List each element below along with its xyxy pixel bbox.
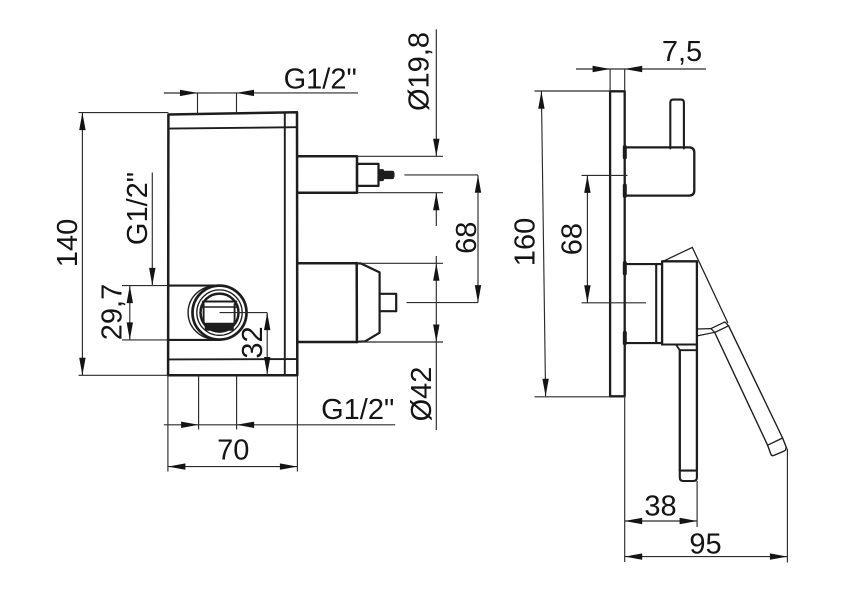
svg-text:68: 68 (557, 223, 589, 255)
7,5 extension left (609, 69, 611, 91)
body bottom band line (168, 358, 297, 360)
open lever cap upper line (711, 322, 729, 333)
arrow Ø42 top (up) (433, 263, 439, 281)
handle hub (662, 261, 697, 344)
32 dimension line (266, 313, 268, 375)
arrow Ø19,8 top (outside, down) (433, 139, 439, 157)
Ø19,8 top extension line (357, 155, 443, 157)
top G1/2 dimension line (164, 92, 358, 94)
cartridge slot dark bottom bar (206, 324, 234, 331)
38 dimension line (625, 520, 697, 522)
arrow 95 right (pointing right) (770, 553, 788, 559)
body top band line (168, 127, 297, 128)
svg-text:140: 140 (52, 219, 84, 267)
side 68 bottom extension line (582, 302, 647, 304)
arrow 70 right (pointing right) (280, 463, 298, 469)
arrow top G1/2 right (outside, pointing left) (237, 90, 255, 96)
38-95 left extension line (plate face) (624, 396, 626, 562)
open lever tip cap line (768, 438, 783, 445)
arrow bottom G1/2 left (outside, pointing right) (181, 422, 199, 428)
7,5 extension right (624, 69, 626, 91)
open lever bar (715, 326, 787, 448)
160 bottom extension line (535, 396, 611, 398)
top outlet port rectangle (297, 156, 357, 192)
plate junction tick top of sleeve (623, 263, 627, 274)
body inner right vertical line (284, 113, 286, 376)
hub bottom edge (662, 343, 697, 345)
wall plate side view (610, 91, 625, 396)
closed lever top line (680, 349, 697, 351)
mixer body front view outline (168, 112, 297, 375)
160 top extension line (535, 90, 611, 92)
boss centerline to 32 dim (220, 312, 268, 314)
open lever top face thin edge long (692, 247, 727, 322)
Ø42 extension bottom (360, 341, 443, 343)
arrow left G1/2 leader (down) (149, 268, 155, 286)
bottom port extension left (198, 375, 200, 429)
plate junction tick bottom of sleeve (623, 333, 627, 344)
open lever step lower line (697, 332, 715, 336)
side 68 top extension line (582, 174, 628, 176)
arrow bottom G1/2 right (outside, pointing left) (237, 422, 255, 428)
open lever beveled tip (768, 445, 787, 455)
svg-text:29,7: 29,7 (97, 284, 129, 340)
top port hex fitting (357, 164, 379, 186)
140 dimension line (81, 113, 83, 376)
160 dimension line (541, 91, 545, 396)
diverter knob body (625, 147, 695, 195)
svg-text:68: 68 (451, 222, 483, 254)
svg-text:160: 160 (510, 218, 542, 266)
arrow 29,7 top (up) (127, 286, 133, 304)
Ø42 dimension line (435, 256, 437, 430)
140 bottom extension line (79, 374, 169, 376)
step chamfer under hub (676, 345, 680, 351)
95 dimension line (625, 556, 788, 558)
bottom port chamfered cap (357, 263, 380, 342)
70 dimension line (168, 466, 298, 468)
bottom port centerline (407, 302, 479, 304)
bottom outlet port rectangle (297, 263, 357, 342)
Ø42 extension top (361, 262, 443, 264)
side port boss offset circle (crescent) (188, 286, 241, 339)
95 right extension line (786, 449, 788, 563)
70 left extension line (167, 375, 169, 471)
Ø19,8 bottom extension line (357, 192, 443, 194)
open lever top face thin edge left (664, 247, 692, 261)
top port extension line left (197, 93, 199, 114)
38 right extension line (696, 481, 698, 527)
bottom G1/2 dimension line (164, 424, 395, 426)
arrow 32 top (up) (264, 313, 270, 331)
side port boss outer circle (193, 286, 247, 340)
svg-text:G1/2": G1/2" (284, 64, 357, 96)
side port boss inner circle (201, 294, 239, 332)
top port centerline (404, 174, 478, 176)
arrow Ø42 bottom (down) (433, 325, 439, 343)
left G1/2 leader line (151, 173, 153, 286)
side port boss middle circle (197, 290, 242, 335)
svg-text:38: 38 (644, 491, 676, 523)
svg-text:32: 32 (237, 326, 269, 358)
arrow front 68 top (up) (475, 175, 481, 193)
arrow 29,7 bottom (down) (127, 322, 133, 340)
Ø19,8 dimension line lower tail (435, 193, 437, 226)
arrow side 68 bottom (down) (584, 285, 590, 303)
arrow 32 bottom (down) (264, 357, 270, 375)
29,7 top extension line (122, 285, 168, 287)
cartridge slot second chord line (203, 306, 237, 308)
arrow 7,5 left (outside, pointing right) (593, 66, 611, 72)
front 68 dimension line (477, 175, 479, 302)
arrow 38 left (pointing left) (625, 518, 643, 524)
140 top extension line (79, 112, 169, 114)
svg-text:7,5: 7,5 (662, 36, 702, 68)
closed lever body (680, 345, 697, 471)
arrow 95 left (pointing left) (625, 553, 643, 559)
Ø19,8 dimension line upper tail (435, 29, 437, 156)
cartridge sleeve (625, 264, 662, 343)
side port capsule bottom tangent line (168, 339, 220, 341)
svg-text:70: 70 (217, 435, 249, 467)
arrow 160 top (up) (538, 91, 544, 109)
arrow 7,5 right (outside, pointing left) (625, 66, 643, 72)
svg-text:Ø42: Ø42 (406, 367, 438, 422)
side 68 dimension line (586, 175, 588, 302)
arrow side 68 top (up) (584, 175, 590, 193)
top port threaded tip (dark) (379, 170, 394, 181)
29,7 dimension line (129, 286, 131, 340)
arrow 70 left (pointing left) (168, 463, 186, 469)
open lever step upper line (697, 328, 711, 330)
svg-text:95: 95 (689, 529, 721, 561)
arrow top G1/2 left (outside, pointing right) (180, 90, 198, 96)
arrow Ø19,8 bottom (outside, up) (433, 193, 439, 211)
29,7 bottom extension line (122, 339, 168, 341)
side port capsule top tangent line (168, 285, 220, 287)
arrow 160 bottom (down) (542, 379, 548, 397)
arrow front 68 bottom (down) (475, 285, 481, 303)
diverter knob stem (670, 100, 684, 149)
top port extension line right (236, 93, 238, 113)
bottom port extension right (236, 375, 238, 429)
svg-text:Ø19,8: Ø19,8 (404, 32, 436, 111)
arrow 140 top (up) (79, 113, 85, 131)
70 right extension line (296, 375, 298, 471)
cartridge slot U outline (204, 304, 235, 329)
closed lever end cap (680, 471, 697, 481)
plate junction tick top of diverter (623, 147, 627, 158)
plate junction tick bottom of diverter (623, 186, 627, 197)
svg-text:G1/2": G1/2" (321, 394, 394, 426)
cartridge slot upper chord line (203, 300, 236, 302)
svg-text:G1/2": G1/2" (122, 172, 154, 245)
arrow 38 right (pointing right) (680, 518, 698, 524)
bottom port stub (380, 294, 397, 311)
7,5 dimension line (576, 68, 706, 70)
arrow 140 bottom (down) (79, 358, 85, 376)
